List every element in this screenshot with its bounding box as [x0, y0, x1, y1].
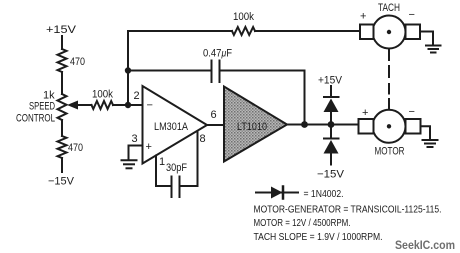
op-amp U1 LM301A — [143, 86, 208, 164]
svg-text:100k: 100k — [233, 11, 254, 23]
svg-text:470: 470 — [68, 142, 83, 154]
motor M1 — [373, 110, 406, 143]
wire node B to C1 — [128, 70, 212, 72]
resistor R4 100k (feedback) — [232, 27, 255, 35]
svg-text:MOTOR-GENERATOR = TRANSICOIL-1: MOTOR-GENERATOR = TRANSICOIL-1125-115. — [254, 204, 442, 216]
svg-text:+15V: +15V — [46, 24, 77, 36]
svg-text:3: 3 — [132, 133, 138, 145]
svg-text:30pF: 30pF — [166, 162, 187, 174]
wire R1 to potentiometer — [61, 72, 63, 94]
svg-text:= 1N4002.: = 1N4002. — [304, 188, 344, 200]
svg-text:TACH SLOPE = 1.9V / 1000RPM.: TACH SLOPE = 1.9V / 1000RPM. — [254, 231, 383, 243]
wire motor - to ground — [421, 126, 431, 139]
wire +15V to D1 — [330, 86, 332, 97]
wire C1 to output node — [220, 71, 305, 125]
resistor R3 100k (input) — [92, 101, 114, 109]
wire pin 8 down — [197, 131, 199, 186]
wire pin 3 to ground — [129, 146, 143, 160]
wire R3 to node A — [113, 104, 143, 106]
terminal box tach + — [360, 25, 374, 40]
wire feedback rail (node A up to top wire) — [127, 31, 129, 105]
svg-text:−15V: −15V — [48, 176, 75, 188]
svg-text:470: 470 — [70, 56, 85, 68]
terminal box tach - — [406, 25, 421, 40]
wire R4 to tach + terminal — [255, 30, 360, 32]
terminal box motor - — [406, 119, 421, 134]
svg-text:SeekIC.com: SeekIC.com — [395, 238, 455, 252]
node D (diode junction) — [328, 121, 335, 128]
capacitor C1 0.47uF — [211, 61, 213, 83]
svg-text:−: − — [147, 100, 153, 112]
node B (0.47uF tap) — [125, 67, 131, 73]
wiper arrow of potentiometer — [76, 104, 92, 106]
svg-text:SPEED: SPEED — [29, 101, 55, 113]
ground (op-amp pin 3) — [122, 159, 137, 161]
wire +15V to R1 — [61, 36, 63, 49]
svg-text:LT1010: LT1010 — [237, 121, 267, 133]
svg-text:−15V: −15V — [317, 169, 345, 181]
resistor R1 470 (upper) — [58, 49, 67, 72]
svg-text:0.47μF: 0.47μF — [203, 48, 232, 60]
ground (tach) — [426, 45, 441, 47]
svg-text:8: 8 — [200, 133, 206, 145]
terminal box motor + — [359, 119, 374, 134]
diode legend symbol — [256, 192, 298, 194]
svg-text:2: 2 — [134, 90, 140, 102]
diode D2 (clamp to -15V) — [330, 125, 332, 139]
svg-text:−: − — [409, 9, 415, 21]
node A (summing junction, pin 2) — [125, 102, 131, 108]
wire top feedback to tach — [128, 30, 232, 32]
wire U1 output to U2 — [207, 124, 224, 126]
svg-text:MOTOR = 12V / 4500RPM.: MOTOR = 12V / 4500RPM. — [254, 217, 351, 229]
wire pot to R2 — [61, 120, 63, 136]
svg-text:+: + — [360, 11, 366, 23]
svg-text:+: + — [362, 107, 368, 119]
diode D1 (clamp to +15V) — [324, 96, 339, 98]
svg-text:MOTOR: MOTOR — [375, 146, 405, 158]
svg-text:1: 1 — [159, 156, 165, 168]
shaft coupling (dashed) — [388, 49, 390, 61]
ground (motor) — [423, 139, 438, 141]
wire R2 to -15V — [61, 158, 63, 172]
potentiometer 1k SPEED CONTROL — [58, 94, 67, 120]
svg-text:LM301A: LM301A — [154, 121, 189, 133]
wire tach - to ground — [420, 32, 433, 46]
capacitor C2 30pF (comp) — [156, 185, 172, 187]
wire pin 1 down — [155, 156, 157, 187]
svg-text:100k: 100k — [92, 89, 113, 101]
wire U2 output bus to motor — [287, 124, 359, 126]
svg-text:+15V: +15V — [318, 75, 343, 87]
buffer U2 LT1010 — [224, 87, 287, 162]
svg-text:TACH: TACH — [378, 2, 400, 14]
svg-text:+: + — [146, 141, 152, 153]
svg-text:−: − — [409, 106, 415, 118]
node C (output junction) — [301, 121, 308, 128]
resistor R2 470 (lower) — [58, 136, 67, 158]
svg-text:CONTROL: CONTROL — [16, 113, 55, 125]
svg-text:6: 6 — [211, 109, 217, 121]
